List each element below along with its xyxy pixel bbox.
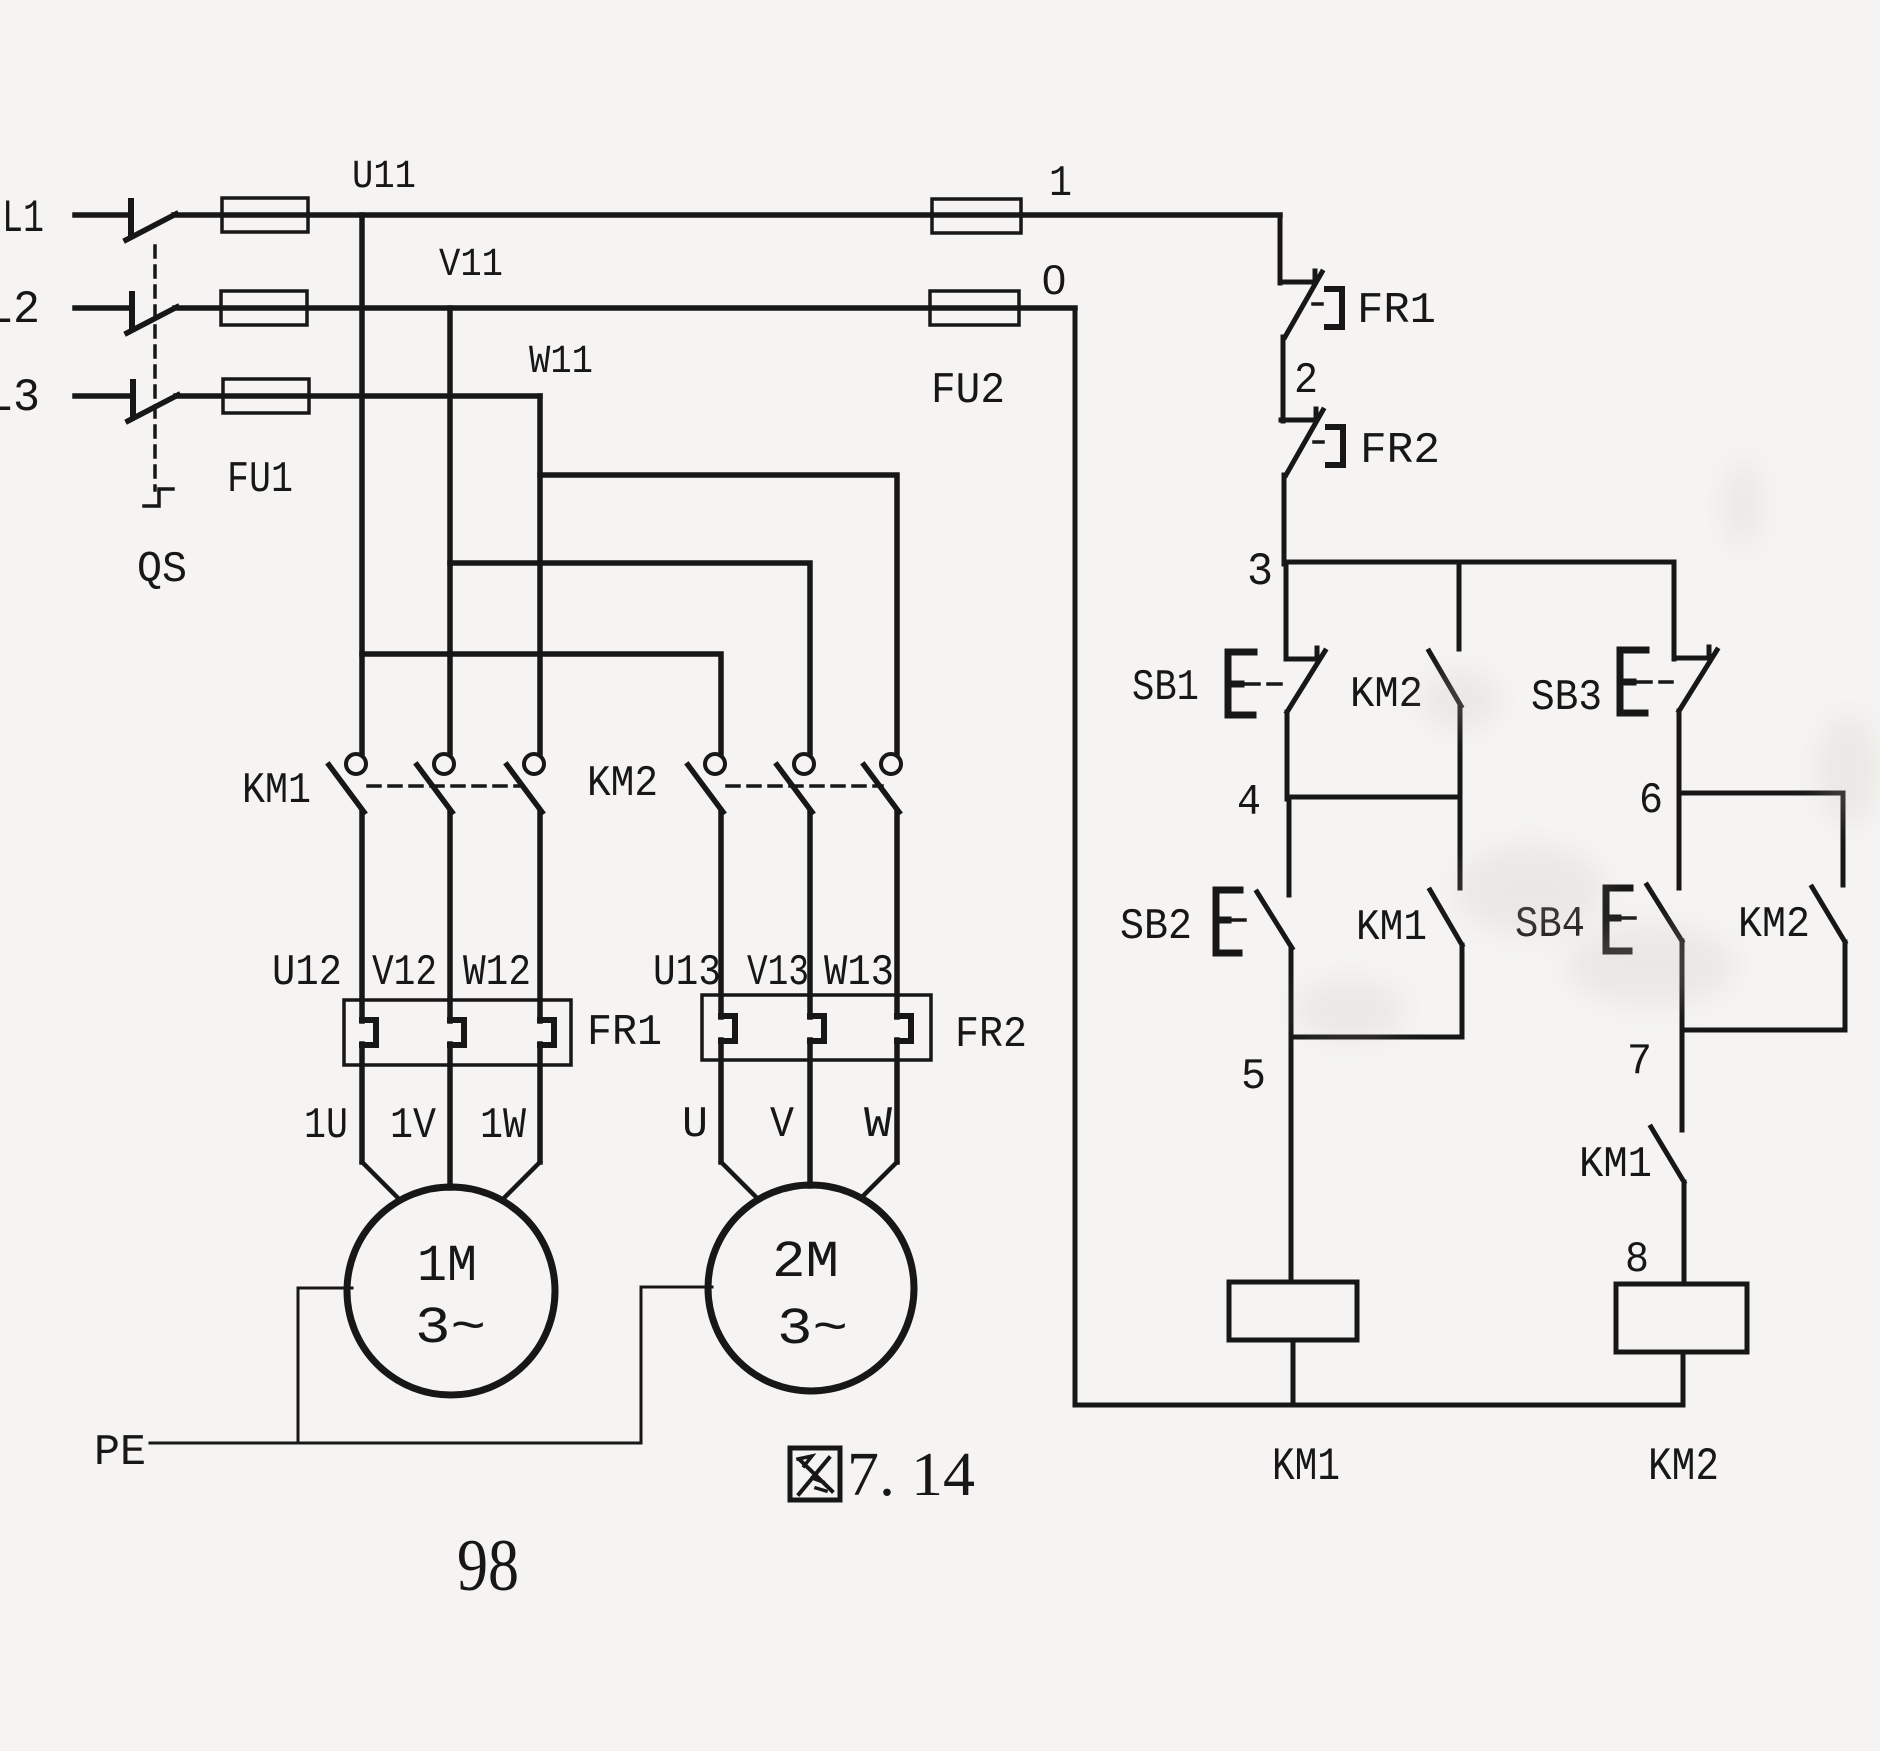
- button SB2 actuator: [1216, 890, 1240, 953]
- svg-text:FR1: FR1: [1357, 286, 1436, 336]
- button SB3 linkage dashed: [1638, 680, 1672, 684]
- svg-text:SB1: SB1: [1132, 663, 1199, 713]
- fuse FU1 pole L1: [222, 198, 308, 232]
- wire KM2 pole1 lower: [718, 812, 724, 1017]
- svg-text:KM1: KM1: [1272, 1441, 1340, 1493]
- svg-text:U: U: [682, 1100, 708, 1150]
- contactor KM1 pole3 blade: [507, 765, 542, 812]
- wire branch W11 to KM2 pole3: [540, 475, 897, 753]
- wire KM2 aux mid lower: [1458, 706, 1463, 797]
- relay FR2 heater element pole3: [897, 1016, 911, 1041]
- button SB2 upper wire: [1287, 797, 1292, 895]
- switch QS pole L1 fixed contact: [128, 201, 134, 233]
- svg-text:5: 5: [1241, 1052, 1266, 1102]
- switch QS linkage dashed: [153, 246, 157, 490]
- svg-text:FU1: FU1: [227, 455, 293, 505]
- wire PE bus: [150, 1442, 641, 1445]
- wire KM2 coil to bottom: [1681, 1352, 1686, 1405]
- contact KM2 aux right blade: [1812, 887, 1845, 942]
- switch QS pole L2 blade: [127, 307, 177, 333]
- wire 1M lead W slant: [502, 1162, 540, 1200]
- wire V11 vertical: [447, 308, 453, 753]
- relay FR2 heater box: [702, 995, 931, 1060]
- wire KM2 pole3 lower: [894, 812, 900, 1017]
- wire KM1 aux mid lower: [1460, 945, 1465, 1037]
- wire node 6 horizontal: [1679, 791, 1843, 796]
- button SB4 blade: [1647, 885, 1682, 941]
- coil KM1: [1229, 1282, 1357, 1340]
- button SB1 linkage dashed: [1246, 682, 1282, 686]
- relay FR1 heater element pole2: [450, 1020, 464, 1045]
- button SB3 actuator: [1620, 650, 1646, 713]
- scan ghost marks: [1295, 460, 1878, 1040]
- wire branch U11 to KM2 pole1: [362, 654, 721, 753]
- svg-text:U13: U13: [653, 948, 721, 998]
- svg-text:PE: PE: [94, 1428, 146, 1478]
- svg-text:W11: W11: [529, 340, 593, 385]
- wire PE riser motor2: [641, 1287, 712, 1443]
- contact FR2 NC terminal bar: [1281, 409, 1316, 420]
- wire L2 to FU2: [175, 305, 1075, 311]
- wire KM2 aux right lower: [1843, 942, 1848, 1030]
- contactor KM2 linkage dashed: [727, 784, 882, 788]
- switch QS pole L3 blade: [128, 395, 178, 421]
- svg-text:L3: L3: [0, 372, 40, 424]
- wire KM2 pole2 lower: [807, 812, 813, 1017]
- caption figure glyph box: [790, 1448, 840, 1500]
- svg-text:KM2: KM2: [587, 759, 658, 809]
- svg-text:L1: L1: [2, 193, 44, 245]
- svg-text:7: 7: [1627, 1037, 1652, 1087]
- button SB3 blade: [1679, 650, 1717, 711]
- relay FR2 heater element pole2: [810, 1016, 824, 1041]
- contactor KM1 linkage dashed: [368, 784, 523, 788]
- svg-text:KM1: KM1: [242, 766, 311, 816]
- relay FR1 heater element pole1: [362, 1020, 376, 1045]
- fuse FU1 pole L3: [223, 379, 309, 413]
- contactor KM2 pole2 circle: [794, 754, 814, 774]
- wire 2M lead U slant: [721, 1162, 758, 1199]
- wire 0 vertical: [1073, 308, 1078, 1405]
- wire 1M lead U slant: [362, 1162, 400, 1200]
- svg-text:KM2: KM2: [1350, 670, 1423, 720]
- svg-text:FR1: FR1: [587, 1008, 662, 1058]
- wire control bottom bus: [1075, 1403, 1683, 1408]
- svg-text:QS: QS: [137, 545, 187, 595]
- svg-text:W13: W13: [824, 948, 894, 998]
- svg-text:6: 6: [1639, 776, 1663, 826]
- contactor KM1 pole2 blade: [417, 765, 452, 812]
- svg-text:W: W: [864, 1100, 893, 1150]
- coil KM2: [1616, 1284, 1747, 1352]
- svg-text:FR2: FR2: [955, 1010, 1027, 1060]
- button SB1 terminal bar: [1286, 648, 1317, 659]
- svg-text:4: 4: [1237, 778, 1261, 828]
- wire SB4 lower: [1680, 941, 1685, 1030]
- contact KM2 aux mid blade: [1429, 651, 1461, 706]
- wire node 2 vertical: [1281, 337, 1286, 421]
- svg-text:3~: 3~: [415, 1299, 486, 1358]
- button SB4 actuator: [1606, 888, 1630, 951]
- switch QS pole L3 fixed contact: [130, 382, 136, 414]
- svg-text:FR2: FR2: [1360, 426, 1440, 476]
- contact FR2 NC blade: [1286, 410, 1323, 475]
- svg-text:KM2: KM2: [1648, 1441, 1719, 1493]
- svg-text:KM2: KM2: [1738, 900, 1810, 950]
- svg-text:FU2: FU2: [931, 366, 1005, 416]
- contact FR2 linkage dash: [1314, 440, 1330, 444]
- button SB4 upper wire: [1677, 793, 1682, 888]
- svg-text:KM1: KM1: [1579, 1140, 1652, 1190]
- button SB2 blade: [1257, 892, 1292, 948]
- wire L3 to W11 corner: [176, 393, 540, 399]
- contact KM1 aux mid blade: [1430, 890, 1462, 945]
- wire node7 to KM1 aux bottom: [1680, 1028, 1685, 1130]
- contact FR1 NC blade: [1285, 272, 1322, 337]
- svg-text:0: 0: [1042, 256, 1066, 303]
- svg-text:SB3: SB3: [1531, 673, 1602, 723]
- wire node 5 horizontal: [1291, 1035, 1462, 1040]
- svg-text:3: 3: [1247, 546, 1273, 598]
- wire L2 left segment: [75, 305, 132, 311]
- fuse FU2 line 1: [932, 199, 1021, 233]
- contactor KM2 pole1 blade: [688, 765, 723, 812]
- svg-text:V: V: [770, 1100, 795, 1150]
- relay FR1 heater box: [344, 1000, 571, 1065]
- contactor KM1 pole1 blade: [329, 765, 364, 812]
- wire L3 left segment: [75, 393, 133, 399]
- svg-text:V11: V11: [439, 243, 503, 288]
- contact KM1 aux bottom blade: [1651, 1127, 1684, 1182]
- wire U11 vertical: [359, 215, 365, 753]
- wire 2M lead W slant: [861, 1162, 897, 1198]
- wire node 3 vertical: [1282, 475, 1287, 564]
- contactor KM2 pole2 blade: [777, 765, 812, 812]
- wire node 7 horizontal: [1682, 1028, 1845, 1033]
- svg-text:L2: L2: [0, 284, 40, 336]
- svg-text:1U: 1U: [304, 1101, 348, 1151]
- svg-text:1: 1: [1049, 159, 1072, 209]
- motor 2M circle: [708, 1185, 914, 1391]
- wire node 3 horizontal: [1284, 560, 1674, 565]
- relay FR2 heater element pole1: [721, 1016, 735, 1041]
- contact KM2 aux right upper wire: [1841, 793, 1846, 885]
- wire SB2 to KM1 coil: [1289, 948, 1294, 1282]
- svg-text:V13: V13: [747, 948, 809, 998]
- svg-text:KM1: KM1: [1356, 903, 1427, 953]
- svg-text:7. 14: 7. 14: [847, 1441, 975, 1509]
- button SB2 linkage dash: [1232, 918, 1252, 922]
- svg-text:1W: 1W: [480, 1101, 527, 1151]
- button SB3 upper wire: [1672, 562, 1677, 659]
- svg-text:3~: 3~: [777, 1300, 848, 1359]
- svg-text:2M: 2M: [772, 1233, 839, 1292]
- contact FR1 actuator bracket: [1327, 289, 1342, 327]
- wire W11 vertical: [537, 396, 543, 753]
- svg-text:W12: W12: [463, 948, 531, 998]
- contact KM2 aux mid upper wire: [1457, 562, 1462, 649]
- wire PE riser motor1: [298, 1288, 352, 1443]
- svg-text:V12: V12: [372, 948, 437, 998]
- contactor KM2 pole1 circle: [705, 754, 725, 774]
- contactor KM1 pole3 circle: [524, 754, 544, 774]
- wire KM1 pole2 lower: [447, 812, 453, 1021]
- wire node1 corner vertical: [1278, 215, 1283, 283]
- button SB1 upper wire: [1284, 562, 1289, 659]
- svg-text:8: 8: [1625, 1235, 1649, 1285]
- contactor KM2 pole3 blade: [864, 765, 899, 812]
- svg-text:SB2: SB2: [1120, 902, 1192, 952]
- wire KM1 aux bottom lower: [1682, 1182, 1687, 1284]
- svg-text:U11: U11: [352, 155, 416, 200]
- wire branch V11 to KM2 pole2: [450, 563, 810, 753]
- wire node 4 horizontal: [1287, 795, 1460, 800]
- wire SB1 to node 4: [1285, 712, 1290, 799]
- contact KM1 aux mid upper wire: [1458, 797, 1463, 888]
- button SB4 linkage dash: [1622, 916, 1642, 920]
- svg-text:98: 98: [457, 1525, 519, 1607]
- button SB3 terminal bar: [1674, 647, 1709, 658]
- contact FR1 NC terminal bar: [1280, 271, 1315, 282]
- svg-text:1M: 1M: [417, 1237, 477, 1296]
- relay FR1 heater element pole3: [540, 1020, 554, 1045]
- motor 1M circle: [347, 1187, 555, 1395]
- contact FR1 linkage dash: [1313, 302, 1329, 306]
- button SB1 actuator: [1228, 652, 1254, 715]
- svg-text:2: 2: [1294, 356, 1318, 406]
- switch QS pole L1 blade: [126, 214, 176, 240]
- wire KM1 pole1 lower: [359, 812, 365, 1021]
- fuse FU1 pole L2: [221, 291, 307, 325]
- wire KM1 coil to bottom: [1291, 1340, 1296, 1405]
- svg-text:U12: U12: [272, 948, 342, 998]
- fuse FU2 line 0: [930, 291, 1019, 325]
- switch QS handle: [144, 489, 173, 506]
- wire KM1 pole3 lower: [537, 812, 543, 1021]
- switch QS pole L2 fixed contact: [129, 294, 135, 326]
- contactor KM1 pole1 circle: [346, 754, 366, 774]
- svg-text:1V: 1V: [390, 1101, 437, 1151]
- wire SB3 to node 6: [1677, 711, 1682, 793]
- contactor KM1 pole2 circle: [434, 754, 454, 774]
- wire L1 left segment: [75, 212, 131, 218]
- wire L1 to FU2 and node 1: [174, 212, 1280, 218]
- contactor KM2 pole3 circle: [881, 754, 901, 774]
- button SB1 blade: [1287, 651, 1325, 712]
- contact FR2 actuator bracket: [1328, 427, 1343, 465]
